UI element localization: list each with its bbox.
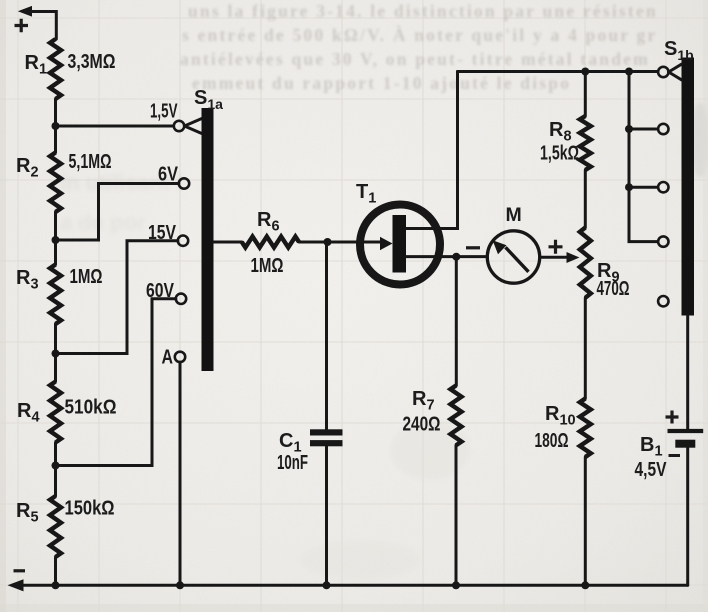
label minus at battery [669, 454, 681, 457]
node S1b contact 5 (unused) [658, 296, 668, 306]
svg-text:180Ω: 180Ω [535, 430, 569, 452]
wire R5-bottom rail [54, 557, 57, 585]
node terminal 15V [148, 222, 188, 246]
switch S1a wiper contact [184, 119, 201, 134]
wire R9-R10 [584, 298, 587, 399]
node junction source/R7 [452, 253, 460, 261]
resistor R3 [16, 265, 103, 325]
wire R6 to T1 gate [299, 241, 381, 244]
node S1b contact 4 [658, 236, 668, 246]
wire R8-R9 [584, 170, 587, 228]
resistor R6 [242, 209, 299, 277]
wire T1 source [406, 255, 486, 258]
svg-text:A: A [162, 347, 174, 369]
node junction rail/R10 [581, 581, 589, 589]
label minus at meter [466, 246, 480, 249]
wire T1 drain to top rail [406, 72, 458, 229]
svg-text:10nF: 10nF [277, 452, 308, 474]
svg-text:3,3MΩ: 3,3MΩ [68, 51, 116, 73]
battery B1 [635, 431, 704, 481]
switch S1b selector bar [664, 38, 694, 316]
resistor R8 [540, 116, 591, 170]
node junction rail/C1 [323, 581, 331, 589]
svg-text:240Ω: 240Ω [403, 414, 441, 436]
wire R2-R3 [54, 212, 57, 265]
wire top rail [458, 70, 659, 73]
wire S1a to R6 [214, 241, 242, 244]
node junction top/R8 [581, 68, 589, 76]
node + input terminal arrow [18, 6, 57, 39]
svg-text:5,1MΩ: 5,1MΩ [69, 151, 112, 173]
svg-text:antiélevées que 30 V, on peut-: antiélevées que 30 V, on peut- titre mét… [180, 49, 650, 69]
wire R4-R5 [54, 443, 57, 497]
wire 1,5V tap [56, 125, 174, 128]
wire junction to C1 [325, 242, 328, 429]
wire 15V tap [56, 241, 178, 354]
node junction top/S1b contacts [625, 68, 633, 76]
node junction rail/A [176, 581, 184, 589]
switch S1a selector bar [194, 87, 223, 371]
svg-text:60V: 60V [146, 280, 175, 302]
wire bottom rail with output arrow [8, 579, 688, 591]
svg-text:s entrée de 500 kΩ/V. À noter: s entrée de 500 kΩ/V. À noter que'il y a… [182, 25, 657, 45]
resistor R1 [25, 39, 116, 99]
svg-text:M: M [506, 204, 522, 226]
wire R1-R2 [54, 99, 57, 153]
resistor R7 [403, 386, 462, 446]
wire 60V tap [56, 299, 176, 466]
wire S1b to B1 [686, 316, 689, 429]
svg-text:uns la figure 3-14. le distinc: uns la figure 3-14. le distinction par u… [188, 1, 658, 21]
wire B1 to bottom rail [686, 448, 689, 586]
label minus at bottom rail [14, 569, 26, 572]
node junction rail/R7 [452, 581, 460, 589]
meter M [487, 204, 539, 283]
svg-text:510kΩ: 510kΩ [65, 397, 117, 419]
svg-text:a de por: a de por [60, 210, 146, 235]
wire S1b contact bus [629, 72, 658, 242]
node terminal A [162, 347, 186, 369]
wire source to R7 [455, 257, 458, 386]
potentiometer R9 [580, 228, 630, 301]
node terminal 1,5V [150, 101, 184, 132]
label plus at battery [666, 411, 679, 424]
node terminal 6V [158, 164, 189, 189]
svg-text:1,5V: 1,5V [150, 101, 178, 123]
node junction R3/R4 (15V tap) [52, 350, 60, 358]
node terminal 60V [146, 280, 186, 304]
+ label (input polarity) [15, 19, 29, 32]
svg-text:470Ω: 470Ω [597, 278, 630, 300]
node S1b contact 2 [625, 124, 669, 134]
node S1b contact 3 [625, 182, 669, 192]
wire C1 to bottom rail [325, 446, 328, 585]
svg-text:1,5kΩ: 1,5kΩ [540, 143, 579, 165]
transistor T1 (FET) [356, 181, 440, 285]
resistor R5 [16, 496, 115, 557]
resistor R10 [535, 399, 591, 458]
capacitor C1 [277, 429, 343, 474]
wire R10 to bottom rail [584, 457, 587, 585]
label plus at meter [549, 240, 563, 254]
svg-text:4,5V: 4,5V [635, 459, 668, 481]
node junction gate/C1 [324, 238, 332, 246]
svg-text:1MΩ: 1MΩ [251, 255, 284, 277]
wire top rail to R8 [584, 72, 587, 117]
node junction R4/R5 (60V tap) [52, 462, 60, 470]
node S1b contact 1 + wiper [658, 64, 681, 80]
svg-text:emmeut du rapport 1-10 ajouté: emmeut du rapport 1-10 ajouté le dispo [192, 73, 571, 93]
wire 6V tap [56, 184, 179, 241]
resistor R2 [16, 151, 112, 212]
svg-text:15V: 15V [148, 222, 177, 244]
svg-text:1MΩ: 1MΩ [70, 266, 103, 288]
resistor R4 [17, 382, 117, 443]
wire A to bottom rail [179, 362, 182, 585]
wire meter to R9 wiper arrow [540, 252, 580, 263]
node junction R1/R2 (1,5V tap) [52, 122, 60, 130]
wire R3-R4 [54, 324, 57, 382]
node junction rail/R5 [52, 581, 60, 589]
svg-text:150kΩ: 150kΩ [65, 498, 115, 520]
wire R7 to bottom rail [455, 445, 458, 585]
node junction R2/R3 (6V tap) [52, 236, 60, 244]
svg-text:6V: 6V [158, 164, 179, 186]
